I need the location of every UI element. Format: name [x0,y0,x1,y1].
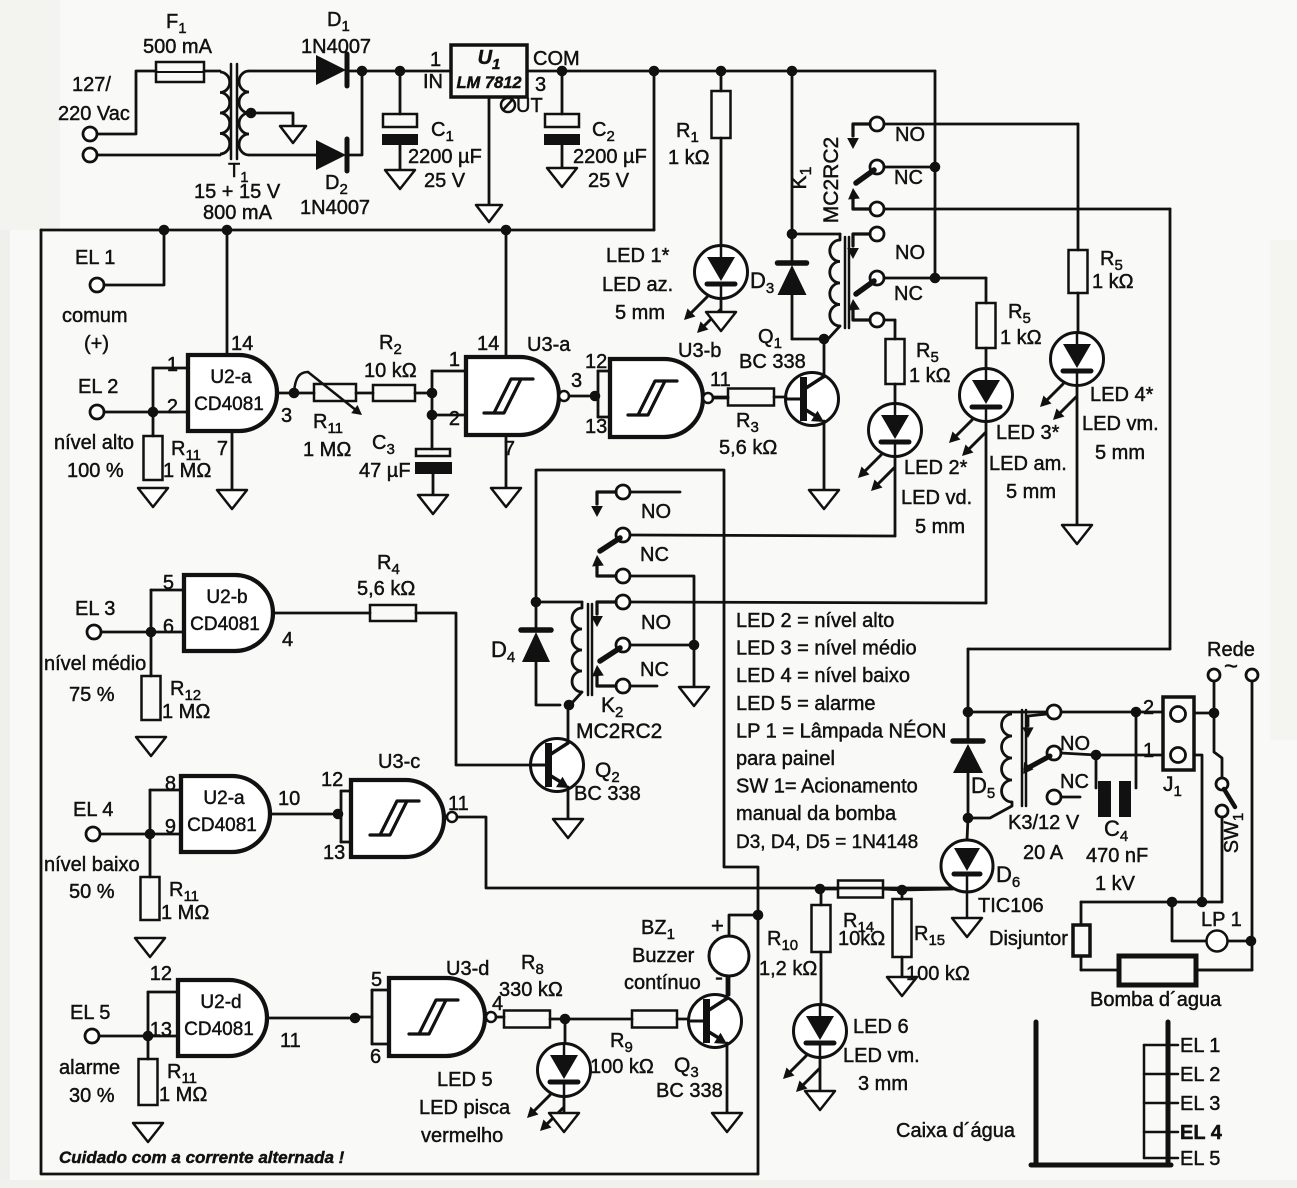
svg-text:vermelho: vermelho [421,1125,503,1147]
svg-text:TIC106: TIC106 [978,895,1044,917]
svg-text:11: 11 [280,1030,301,1052]
svg-text:para painel: para painel [736,748,835,770]
svg-text:11: 11 [448,793,469,815]
svg-text:nível alto: nível alto [54,432,134,454]
svg-text:NC: NC [894,167,923,189]
svg-text:1 kΩ: 1 kΩ [909,365,951,387]
svg-text:(+): (+) [84,333,109,355]
svg-text:CD4081: CD4081 [190,614,260,635]
svg-text:5 mm: 5 mm [615,302,665,324]
svg-text:U2-a: U2-a [203,788,245,809]
svg-text:BC 338: BC 338 [656,1080,723,1102]
svg-text:13: 13 [150,1019,172,1041]
svg-text:Disjuntor: Disjuntor [989,928,1068,950]
svg-text:LED vd.: LED vd. [901,487,972,509]
svg-text:500 mA: 500 mA [143,36,213,58]
svg-text:LED 5 = alarme: LED 5 = alarme [736,693,876,715]
svg-text:nível baixo: nível baixo [44,854,140,876]
svg-text:LED vm.: LED vm. [843,1045,920,1067]
svg-text:127/: 127/ [72,74,111,96]
svg-text:UT: UT [516,95,543,117]
svg-text:12: 12 [321,769,343,791]
svg-text:1: 1 [1143,740,1154,762]
svg-text:LED 4 = nível baixo: LED 4 = nível baixo [736,665,910,687]
svg-text:LED vm.: LED vm. [1082,413,1159,435]
svg-text:6: 6 [370,1046,381,1068]
svg-text:NO: NO [895,124,925,146]
svg-text:NO: NO [641,501,671,523]
svg-text:EL 4: EL 4 [1180,1122,1223,1144]
svg-text:LED 6: LED 6 [853,1016,909,1038]
svg-text:LED 1*: LED 1* [606,245,670,267]
svg-text:2200 µF: 2200 µF [408,146,482,168]
svg-text:D3, D4, D5 = 1N4148: D3, D4, D5 = 1N4148 [736,832,918,853]
svg-text:11: 11 [710,369,731,391]
svg-text:LM 7812: LM 7812 [456,74,521,92]
svg-text:LED 2 = nível alto: LED 2 = nível alto [736,610,894,632]
svg-text:1N4007: 1N4007 [300,197,370,219]
svg-text:EL 2: EL 2 [78,376,118,398]
svg-text:12: 12 [585,351,607,373]
svg-text:5: 5 [163,572,174,594]
svg-text:75 %: 75 % [69,684,115,706]
svg-text:NC: NC [640,659,669,681]
svg-text:K3/12 V: K3/12 V [1008,812,1080,834]
svg-text:U3-b: U3-b [678,340,721,362]
svg-text:20 A: 20 A [1023,842,1064,864]
svg-text:LED pisca: LED pisca [419,1097,511,1119]
svg-text:LED 3*: LED 3* [996,422,1060,444]
svg-text:220 Vac: 220 Vac [58,103,130,125]
svg-text:U2-d: U2-d [200,992,241,1013]
svg-text:470 nF: 470 nF [1086,845,1148,867]
svg-text:EL 1: EL 1 [75,247,115,269]
svg-text:U3-a: U3-a [527,334,571,356]
svg-text:13: 13 [323,842,345,864]
svg-text:1 MΩ: 1 MΩ [159,1084,207,1106]
svg-text:1 MΩ: 1 MΩ [303,439,351,461]
svg-text:10 kΩ: 10 kΩ [364,360,417,382]
svg-text:MC2RC2: MC2RC2 [576,720,662,743]
svg-text:12: 12 [150,963,172,985]
svg-text:6: 6 [163,616,174,638]
svg-text:LP 1: LP 1 [1201,909,1242,931]
svg-text:1 kΩ: 1 kΩ [1092,271,1134,293]
svg-text:~: ~ [1224,653,1238,680]
svg-text:1,2 kΩ: 1,2 kΩ [759,958,817,980]
svg-text:2200 µF: 2200 µF [573,146,647,168]
svg-text:13: 13 [585,416,607,438]
svg-text:15 + 15 V: 15 + 15 V [194,181,281,203]
svg-text:EL 4: EL 4 [73,799,113,821]
svg-text:7: 7 [504,438,515,460]
svg-text:NO: NO [895,242,925,264]
svg-text:5,6 kΩ: 5,6 kΩ [357,578,415,600]
svg-text:10kΩ: 10kΩ [838,928,885,950]
svg-text:8: 8 [165,773,176,795]
svg-text:100 kΩ: 100 kΩ [906,963,970,985]
svg-text:1 MΩ: 1 MΩ [162,701,210,723]
svg-text:EL 5: EL 5 [70,1002,110,1024]
svg-text:3: 3 [571,370,582,392]
svg-text:NC: NC [640,544,669,566]
svg-text:LED 4*: LED 4* [1090,384,1154,406]
svg-text:7: 7 [217,438,228,460]
svg-text:100 kΩ: 100 kΩ [590,1056,654,1078]
svg-text:30 %: 30 % [69,1085,115,1107]
svg-text:manual da bomba: manual da bomba [736,803,897,825]
svg-text:NC: NC [1060,771,1089,793]
svg-text:5,6 kΩ: 5,6 kΩ [719,437,777,459]
svg-text:NO: NO [1060,733,1090,755]
svg-text:3: 3 [281,405,292,427]
svg-text:1: 1 [430,49,441,71]
svg-text:LP 1 = Lâmpada NÉON: LP 1 = Lâmpada NÉON [736,719,946,742]
svg-text:EL 5: EL 5 [1180,1148,1220,1170]
svg-text:14: 14 [477,333,499,355]
svg-text:4: 4 [282,629,293,651]
svg-text:1: 1 [167,354,178,376]
svg-text:LED 5: LED 5 [437,1069,493,1091]
svg-text:LED am.: LED am. [989,453,1067,475]
svg-text:CD4081: CD4081 [187,815,257,836]
svg-text:3 mm: 3 mm [858,1073,908,1095]
svg-text:25 V: 25 V [588,170,630,192]
svg-text:EL 2: EL 2 [1180,1064,1220,1086]
svg-text:1 MΩ: 1 MΩ [161,902,209,924]
svg-text:47 µF: 47 µF [359,460,411,482]
svg-text:nível médio: nível médio [44,653,146,675]
svg-text:LED 3 = nível médio: LED 3 = nível médio [736,638,917,660]
svg-text:50 %: 50 % [69,881,115,903]
svg-text:BC 338: BC 338 [739,351,806,373]
svg-text:9: 9 [165,816,176,838]
svg-text:25 V: 25 V [424,170,466,192]
svg-text:Cuidado com a corrente alterna: Cuidado com a corrente alternada ! [59,1148,345,1167]
svg-text:contínuo: contínuo [624,972,701,994]
svg-text:1 kV: 1 kV [1095,873,1136,895]
svg-text:10: 10 [278,788,300,810]
svg-text:100 %: 100 % [67,460,124,482]
svg-text:EL 3: EL 3 [75,598,115,620]
svg-text:MC2RC2: MC2RC2 [820,137,843,223]
svg-text:800 mA: 800 mA [203,202,273,224]
svg-text:+: + [711,913,724,938]
svg-text:EL 1: EL 1 [1180,1035,1220,1057]
svg-text:U3-d: U3-d [446,958,489,980]
svg-text:5 mm: 5 mm [1006,481,1056,503]
svg-text:U3-c: U3-c [378,751,420,773]
svg-text:BC 338: BC 338 [574,783,641,805]
svg-text:1 kΩ: 1 kΩ [668,147,710,169]
svg-text:NC: NC [894,283,923,305]
svg-text:IN: IN [423,71,443,93]
svg-text:comum: comum [62,305,128,327]
svg-text:LED az.: LED az. [602,274,673,296]
svg-text:EL 3: EL 3 [1180,1093,1220,1115]
svg-text:CD4081: CD4081 [194,394,264,415]
svg-text:3: 3 [535,74,546,96]
svg-text:5 mm: 5 mm [1095,442,1145,464]
svg-text:COM: COM [533,48,580,70]
svg-text:Buzzer: Buzzer [632,945,695,967]
svg-text:1N4007: 1N4007 [301,36,371,58]
svg-text:5 mm: 5 mm [915,516,965,538]
svg-text:CD4081: CD4081 [184,1019,254,1040]
svg-text:SW 1= Acionamento: SW 1= Acionamento [736,776,918,798]
svg-text:alarme: alarme [59,1057,120,1079]
svg-text:U2-a: U2-a [210,367,252,388]
svg-text:LED 2*: LED 2* [904,457,968,479]
svg-text:2: 2 [1143,697,1154,719]
svg-text:1: 1 [449,349,460,371]
svg-text:U2-b: U2-b [206,587,247,608]
svg-text:NO: NO [641,612,671,634]
svg-text:Bomba d´agua: Bomba d´agua [1090,989,1222,1011]
svg-text:1 MΩ: 1 MΩ [163,460,211,482]
svg-text:Caixa d´água: Caixa d´água [896,1120,1016,1142]
svg-text:-: - [715,964,723,991]
svg-text:1 kΩ: 1 kΩ [1000,327,1042,349]
svg-text:330 kΩ: 330 kΩ [499,979,563,1001]
svg-text:14: 14 [231,333,253,355]
svg-text:5: 5 [371,969,382,991]
svg-text:2: 2 [449,408,460,430]
svg-text:2: 2 [167,396,178,418]
